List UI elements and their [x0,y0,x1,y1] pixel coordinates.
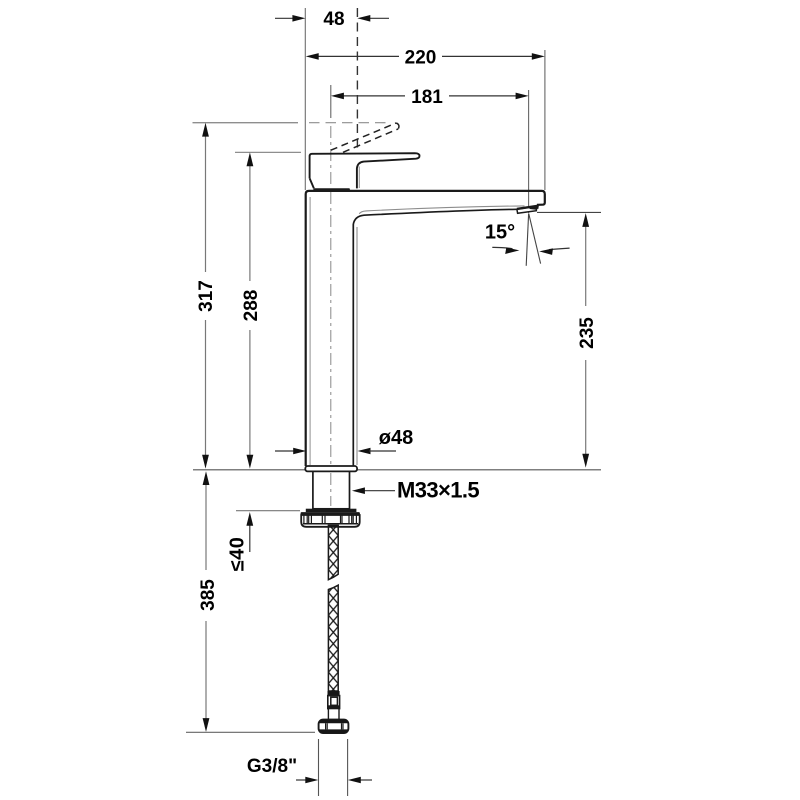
dashed extension line y=152.4 (288) [235,151,301,153]
connector dark band [328,705,340,708]
dashed extension line x=357 (body width right) [356,8,358,150]
angle 15deg: stream line tilted [529,214,541,264]
lower segment [328,585,338,691]
end nut bottom band [319,729,348,733]
nut castellation slots [304,515,357,524]
angle 15deg: left arrow [492,247,512,248]
svg-text:15°: 15° [485,222,515,244]
end nut facet lines [326,723,343,729]
svg-text:M33×1.5: M33×1.5 [397,478,479,503]
extension line for max 40 (underside of deck) [236,510,300,512]
svg-text:385: 385 [198,579,219,611]
ferrule [328,691,340,696]
svg-text:G3/8": G3/8" [247,756,297,777]
mounting surface line y=470 [193,469,601,471]
extension line G3/8 left x=318.5 [318,739,320,796]
spout underside outer line + inner corner + column right inner (dark) [353,209,517,466]
angle 15deg: stream line vertical [526,214,528,266]
angle 15deg: right arrow [549,248,570,250]
extension line: faucet front face (left), x=305 [304,8,306,190]
wide ring band [301,512,360,515]
tube [328,709,339,720]
extension line 181-left (solid part above centerline) [330,85,332,118]
svg-text:48: 48 [323,9,344,30]
extension line 181-right x=528.7 [528,90,530,214]
extension line G3/8 right x=347.6 [347,739,349,796]
dashed extension line y=122.7 (top of handle, 317) [193,122,299,124]
connector window [331,697,338,705]
extension line 220-right x=545 [544,50,546,190]
nut bottom edge line [303,523,358,525]
lever base dark band [313,188,351,191]
G3/8 end nut [319,720,349,733]
svg-text:317: 317 [196,280,217,312]
svg-text:181: 181 [411,87,443,108]
spout underside inner highlight [359,206,524,214]
upper segment [328,525,338,579]
svg-text:235: 235 [577,317,598,349]
centerline through shank [330,473,332,506]
head + front face outline [306,191,545,466]
connector body [328,696,340,709]
svg-text:220: 220 [405,47,437,68]
castellated nut body [301,515,360,527]
centerline (dash-dot) of faucet axis [330,126,332,466]
svg-text:288: 288 [241,290,262,322]
lever left-bottom chamfer [310,178,314,188]
svg-text:≤40: ≤40 [226,537,248,572]
aerator [517,206,537,213]
extension line aerator outlet y=212.4 [537,211,601,213]
extension line bottom of hose y=732.5 [186,731,315,733]
washer band [306,509,357,512]
lever neck highlight [358,167,360,189]
end nut top band [319,720,348,723]
front face inner highlight [309,197,311,465]
svg-text:ø48: ø48 [379,427,413,449]
column right outer edge (light) [356,227,358,465]
